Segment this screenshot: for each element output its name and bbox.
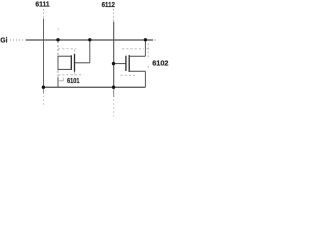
- svg-text:Gi: Gi: [0, 36, 7, 45]
- svg-text:6102: 6102: [152, 59, 168, 68]
- svg-text:6111: 6111: [35, 0, 49, 9]
- svg-text:6112: 6112: [102, 0, 115, 9]
- svg-text:6101: 6101: [67, 76, 80, 85]
